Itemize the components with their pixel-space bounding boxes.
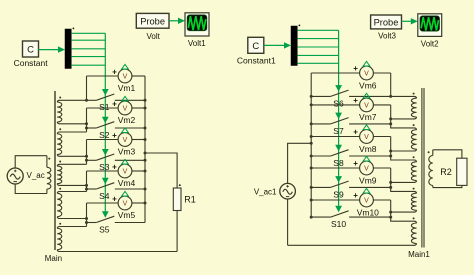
switch S2 (87, 122, 146, 128)
tap rail segment 7 (391, 105, 415, 128)
rail dot switch 8 (389, 155, 392, 158)
wire Vm9 output (374, 167, 391, 169)
demux output wire 4 (71, 56, 105, 58)
wire V_ac to primary bottom (15, 184, 47, 194)
label Vm7 (359, 112, 377, 122)
switch S8 (311, 150, 391, 156)
winding 5 polarity dot (59, 223, 61, 225)
wire Vm2 to bus (132, 107, 145, 109)
demux2 output wire 5 (297, 62, 338, 64)
label Vm2 (118, 115, 136, 125)
bus2 dot switch 7 (310, 122, 313, 125)
bus dot meter 5 (144, 202, 147, 205)
winding 8 polarity dot (413, 156, 415, 158)
label Vm3 (118, 146, 136, 156)
svg-text:+: + (353, 159, 358, 168)
rail dot switch 7 (389, 122, 392, 125)
wire Vm6 output (374, 72, 391, 74)
wire Vm1 to bus (132, 75, 145, 77)
winding 7 polarity dot (413, 124, 415, 126)
voltage meter Vm1 (118, 64, 132, 83)
label Vm9 (359, 175, 377, 185)
svg-text:Vm5: Vm5 (118, 210, 136, 220)
demux2 port mark (299, 25, 301, 27)
voltage meter Vm8 (360, 125, 374, 144)
winding 1 polarity dot (59, 97, 61, 99)
svg-text:V: V (364, 198, 369, 205)
tap node 5 jog (85, 217, 88, 227)
meter Vm6 plus (353, 64, 358, 73)
svg-text:R1: R1 (184, 195, 196, 205)
label V_ac (27, 171, 45, 180)
scope block Volt2 (418, 14, 442, 37)
demux port mark (73, 28, 75, 30)
label Volt3 (378, 31, 396, 40)
wire Constant to Demux (38, 46, 65, 52)
rail dot switch 6 (389, 95, 392, 98)
svg-text:S1: S1 (99, 102, 110, 112)
svg-text:V: V (123, 137, 128, 144)
tap rail segment 6 (390, 73, 392, 96)
switch S5 (87, 216, 146, 222)
rail dot winding 7 bottom (389, 150, 392, 153)
constant block C (23, 41, 39, 57)
tap rail segment 10 (391, 200, 415, 221)
primary polarity dot (48, 158, 50, 160)
demux2 output wire 4 (297, 54, 338, 56)
bus2 dot V_ac1 (310, 142, 313, 145)
demux2 output wire 3 (297, 46, 338, 48)
label Vm6 (359, 80, 377, 90)
primary Main1 polarity dot (428, 151, 430, 153)
secondary winding 10 (Main1) (411, 221, 416, 245)
svg-text:Vm9: Vm9 (359, 175, 377, 185)
voltage meter Vm10 (360, 188, 374, 207)
wire Vm7 input (311, 104, 359, 106)
ac source V_ac (7, 168, 23, 184)
label Constant1 (237, 55, 276, 65)
svg-text:+: + (353, 191, 358, 200)
wire Vm2 input (87, 108, 119, 124)
svg-text:S2: S2 (99, 130, 110, 140)
control signal trunk wire (104, 33, 106, 211)
svg-text:Constant1: Constant1 (237, 55, 276, 65)
bus2 dot meter 9 (310, 167, 313, 170)
wire Vm7 output (374, 104, 391, 106)
secondary winding 4 (Main) (57, 192, 86, 219)
meter Vm1 plus (112, 67, 117, 76)
svg-text:Vm4: Vm4 (118, 178, 136, 188)
label Vm8 (359, 144, 377, 154)
wire Probe1 to Volt2 (402, 18, 418, 24)
bus dot switch 1 (144, 99, 147, 102)
tap rail segment 9 (391, 168, 415, 191)
svg-text:V: V (364, 103, 369, 110)
secondary winding 1 (Main) (57, 100, 86, 124)
winding 10 polarity dot (413, 217, 415, 219)
demux block (65, 29, 71, 69)
wire V_ac1 bottom (287, 199, 289, 245)
svg-text:+: + (353, 96, 358, 105)
label S9 (333, 189, 344, 199)
voltage meter Vm7 (360, 93, 374, 112)
wire V_ac1 top (288, 143, 312, 183)
label S1 (99, 102, 110, 112)
control signal trunk wire 2 (338, 30, 340, 206)
switch S4 (87, 183, 146, 189)
control arrow to S3 (102, 149, 109, 156)
bus dot meter 4 (144, 170, 147, 173)
svg-text:+: + (112, 194, 117, 203)
wire primary to R2 top (433, 150, 462, 158)
svg-text:V: V (123, 106, 128, 113)
meter Vm4 plus (112, 162, 117, 171)
svg-text:Probe: Probe (374, 18, 399, 28)
svg-text:V: V (364, 166, 369, 173)
primary winding (Main1) (429, 150, 433, 188)
svg-text:C: C (27, 45, 34, 56)
control arrow to S5 (102, 211, 109, 218)
svg-text:V: V (123, 74, 128, 81)
secondary winding 8 (Main1) (411, 160, 416, 182)
demux2 output wire 1 (297, 29, 338, 31)
wire Vm10 input (311, 199, 359, 201)
svg-text:Constant: Constant (14, 58, 49, 68)
label R2 (440, 167, 452, 177)
label Volt (147, 32, 161, 41)
bus dot R1 branch (144, 152, 147, 155)
wire Vm6 input (311, 72, 359, 74)
svg-text:Main: Main (45, 254, 62, 263)
secondary winding 5 (Main) (57, 227, 177, 252)
probe block (Volt3) (371, 15, 402, 29)
svg-text:Volt2: Volt2 (421, 39, 439, 48)
svg-text:S8: S8 (333, 158, 344, 168)
resistor R2 (457, 158, 467, 185)
switch S6 (311, 90, 414, 96)
switch S9 (311, 181, 391, 187)
winding 6 polarity dot (413, 93, 415, 95)
meter Vm2 plus (112, 99, 117, 108)
rail dot winding 8 bottom (389, 181, 392, 184)
rail dot switch 9 (389, 186, 392, 189)
svg-text:+: + (112, 99, 117, 108)
tap node 1 dot (85, 99, 88, 102)
meter Vm8 plus (353, 128, 358, 137)
secondary winding 3 (Main) (57, 164, 86, 185)
wire R1 return (176, 211, 178, 252)
wire R2 to primary bottom (433, 185, 462, 187)
constant block C (Constant1) (248, 37, 264, 53)
svg-text:S9: S9 (333, 189, 344, 199)
control arrow to S8 (335, 145, 342, 152)
secondary winding 2 (Main) (57, 132, 86, 156)
label Constant (14, 58, 49, 68)
wire Vm9 input (311, 167, 359, 169)
scope block Volt1 (185, 13, 209, 36)
control arrow to S4 (102, 178, 109, 185)
svg-text:S4: S4 (99, 191, 110, 201)
meter Vm5 plus (112, 194, 117, 203)
control arrow to S9 (335, 176, 342, 183)
winding 3 polarity dot (59, 161, 61, 163)
wire Constant1 to Demux1 (264, 42, 291, 48)
tap node 4 jog (85, 184, 88, 192)
label Main1 (408, 250, 430, 259)
bus dot switch 3 (144, 159, 147, 162)
bus2 dot switch 8 (310, 155, 313, 158)
label S5 (99, 224, 110, 234)
label S4 (99, 191, 110, 201)
switch S7 (311, 118, 391, 124)
control arrow to S7 (335, 113, 342, 120)
wire Vm1 input (87, 76, 119, 100)
svg-text:+: + (112, 67, 117, 76)
svg-text:Volt1: Volt1 (188, 39, 206, 48)
demux output wire 1 (71, 32, 105, 34)
bus dot switch 4 (144, 188, 147, 191)
control arrow to S10 (335, 206, 342, 213)
bus2 dot meter 7 (310, 103, 313, 106)
voltage meter Vm4 (118, 159, 132, 178)
svg-text:S5: S5 (99, 224, 110, 234)
winding 2 polarity dot (59, 128, 61, 130)
svg-text:Vm1: Vm1 (118, 83, 136, 93)
svg-text:V_ac: V_ac (27, 171, 45, 180)
voltage meter Vm6 (360, 61, 374, 80)
resistor R1 (173, 184, 181, 210)
label Vm5 (118, 210, 136, 220)
rail dot switch 10 (389, 216, 392, 219)
voltage meter Vm2 (118, 96, 132, 115)
bus2 dot switch 10 (310, 216, 313, 219)
wire winding 8 bottom lead (391, 181, 415, 183)
label R1 (184, 195, 196, 205)
label Volt2 (421, 39, 439, 48)
svg-text:Volt: Volt (147, 32, 161, 41)
voltage meter Vm5 (118, 191, 132, 210)
meter Vm9 plus (353, 159, 358, 168)
bus2 dot switch 9 (310, 186, 313, 189)
svg-text:Vm6: Vm6 (359, 80, 377, 90)
demux2 output wire 2 (297, 38, 338, 40)
switch S1 (87, 94, 146, 100)
label S8 (333, 158, 344, 168)
wire winding 7 bottom lead (391, 150, 415, 152)
wire Probe to Volt1 (169, 18, 185, 24)
wire Vm8 input (311, 136, 359, 138)
control arrow to S2 (102, 117, 109, 124)
secondary winding 9 (Main1) (411, 191, 416, 212)
probe block (Volt) (136, 13, 169, 28)
meter Vm10 plus (353, 191, 358, 200)
wire V_ac to primary top (15, 156, 47, 168)
measurement bus (144, 76, 146, 223)
label Vm10 (357, 207, 379, 217)
control arrow to S6 (335, 85, 342, 92)
meter Vm3 plus (112, 131, 117, 140)
svg-text:R2: R2 (440, 167, 452, 177)
winding 9 polarity dot (413, 188, 415, 190)
label Volt1 (188, 39, 206, 48)
rail dot winding 9 bottom (389, 211, 392, 214)
bus2 dot switch 6 (310, 95, 313, 98)
svg-text:+: + (353, 128, 358, 137)
secondary winding 6 (Main1) (411, 96, 416, 119)
demux block 2 (291, 26, 297, 66)
svg-text:Vm2: Vm2 (118, 115, 136, 125)
demux output wire 3 (71, 48, 105, 50)
secondary winding 7 (Main1) (411, 128, 416, 151)
svg-text:V: V (123, 201, 128, 208)
wire Vm4 input (87, 171, 119, 185)
wire winding 6 bottom lead (391, 118, 415, 120)
label Main (45, 254, 62, 263)
tap node 2 jog (85, 122, 88, 132)
wire winding 10 bottom lead (288, 244, 415, 246)
svg-text:Probe: Probe (140, 16, 165, 26)
svg-text:S10: S10 (331, 219, 346, 229)
label Vm1 (118, 83, 136, 93)
svg-text:+: + (353, 64, 358, 73)
svg-text:Volt3: Volt3 (378, 31, 396, 40)
switch S10 (311, 211, 391, 217)
svg-text:Vm3: Vm3 (118, 146, 136, 156)
label S7 (333, 126, 344, 136)
rail dot winding 6 bottom (389, 117, 392, 120)
svg-text:S6: S6 (333, 98, 344, 108)
wire Vm3 to bus (132, 139, 145, 141)
tap bus (right) (310, 73, 312, 217)
wire Vm3 input (87, 140, 119, 157)
svg-text:Vm7: Vm7 (359, 112, 377, 122)
svg-text:+: + (112, 162, 117, 171)
bus2 dot meter 8 (310, 135, 313, 138)
svg-text:V: V (364, 71, 369, 78)
wire Vm10 output (374, 199, 391, 201)
bus2 dot meter 10 (310, 199, 313, 202)
label Vm4 (118, 178, 136, 188)
voltage meter Vm3 (118, 128, 132, 147)
demux output wire 2 (71, 39, 105, 41)
svg-text:Vm8: Vm8 (359, 144, 377, 154)
svg-text:V_ac1: V_ac1 (254, 187, 277, 196)
ac source V_ac1 (280, 183, 296, 199)
wire bus to R1 (145, 153, 177, 188)
svg-text:C: C (252, 41, 259, 52)
tap node 3 jog (85, 155, 88, 165)
svg-text:Vm10: Vm10 (357, 207, 379, 217)
svg-text:+: + (112, 131, 117, 140)
label S10 (331, 219, 346, 229)
tap rail segment 8 (391, 137, 415, 161)
transformer Main1 core (422, 88, 424, 248)
primary winding (Main) (47, 156, 51, 194)
wire Vm4 to bus (132, 170, 145, 172)
demux output wire 5 (71, 64, 105, 66)
wire winding 9 bottom lead (391, 211, 415, 213)
wire Vm5 input (87, 203, 119, 219)
control arrow to S1 (102, 89, 109, 96)
transformer Main core (54, 91, 56, 250)
switch S3 (87, 154, 146, 160)
bus dot meter 2 (144, 107, 147, 110)
svg-text:Main1: Main1 (408, 250, 430, 259)
label S2 (99, 130, 110, 140)
svg-text:V: V (364, 134, 369, 141)
bus dot meter 3 (144, 138, 147, 141)
meter Vm7 plus (353, 96, 358, 105)
label S3 (99, 162, 110, 172)
winding 4 polarity dot (59, 188, 61, 190)
svg-text:V: V (123, 169, 128, 176)
label V_ac1 (254, 187, 277, 196)
voltage meter Vm9 (360, 156, 374, 175)
wire Vm8 output (374, 136, 391, 138)
bus dot switch 2 (144, 127, 147, 130)
svg-text:S7: S7 (333, 126, 344, 136)
wire Vm5 to bus (132, 202, 145, 204)
label S6 (333, 98, 344, 108)
